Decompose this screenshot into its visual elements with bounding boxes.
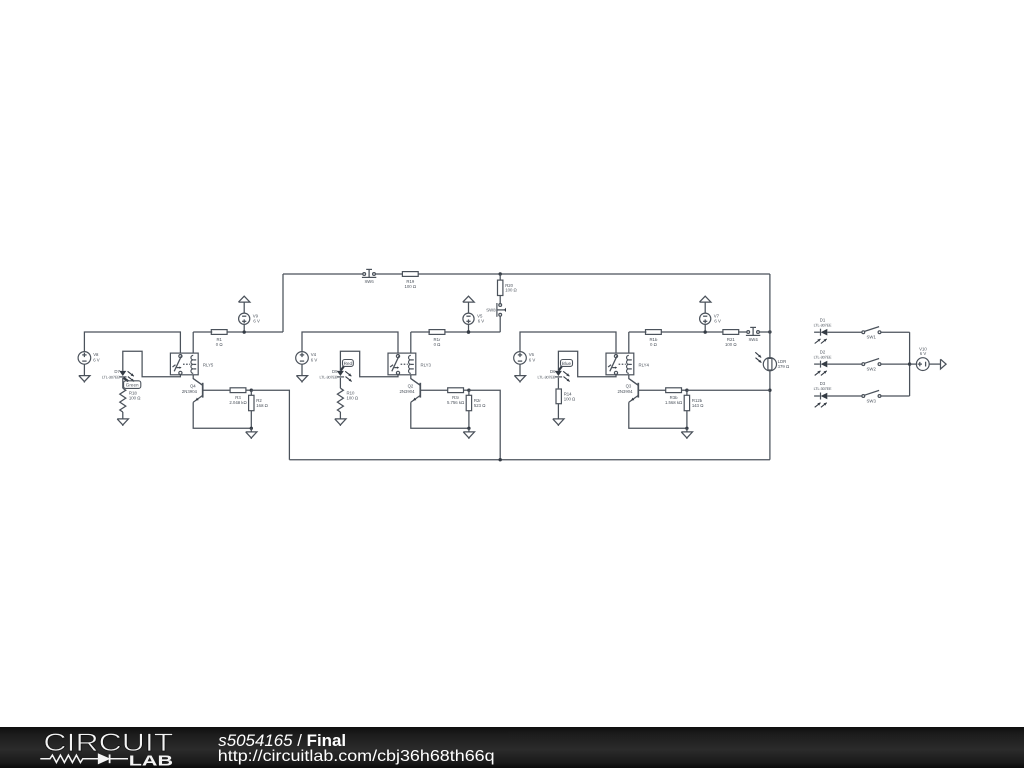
node junction xyxy=(467,389,470,392)
svg-text:D6: D6 xyxy=(550,369,556,374)
logo resistor-diode icon xyxy=(40,754,128,763)
svg-text:6 V: 6 V xyxy=(920,351,927,356)
wire SW2 to V10 column xyxy=(881,363,910,365)
svg-text:168 Ω: 168 Ω xyxy=(256,403,268,408)
svg-text:RLY3: RLY3 xyxy=(421,363,432,368)
wire R19 to LDR column xyxy=(418,273,770,275)
resistor R3b xyxy=(665,388,683,405)
resistor R14 xyxy=(556,389,576,404)
voltage source V8 xyxy=(78,352,100,365)
LDR node junction xyxy=(768,389,771,392)
wire R1 to V9 node xyxy=(227,331,283,333)
svg-text:RLY4: RLY4 xyxy=(639,363,650,368)
wire LED to resistor xyxy=(122,378,124,388)
node junction xyxy=(685,389,688,392)
svg-text:100 Ω: 100 Ω xyxy=(725,342,737,347)
relay RLY5 xyxy=(170,353,214,375)
wire top bus to R20 xyxy=(499,274,501,280)
rail junction V5 xyxy=(467,330,470,333)
svg-text:RLY5: RLY5 xyxy=(203,363,214,368)
wire SW4 to LDR column xyxy=(759,331,770,333)
svg-text:0 Ω: 0 Ω xyxy=(434,342,442,347)
svg-text:SW8: SW8 xyxy=(486,307,496,312)
resistor R20 xyxy=(498,280,518,295)
ground xyxy=(553,419,564,426)
label Green xyxy=(123,378,140,389)
wire V6 to relay common xyxy=(520,332,616,353)
transistor Q2 xyxy=(399,379,420,403)
svg-text:Blue: Blue xyxy=(562,361,572,366)
wire relay coil to collector xyxy=(411,375,421,386)
svg-text:0 Ω: 0 Ω xyxy=(650,342,658,347)
wire SW1 to V10 column xyxy=(881,331,910,333)
emitter junction xyxy=(685,427,688,430)
svg-text:LAB: LAB xyxy=(129,752,173,768)
label Blue xyxy=(559,360,573,371)
svg-text:100 Ω: 100 Ω xyxy=(347,395,359,400)
ground xyxy=(681,428,692,439)
wire node to R2 xyxy=(468,390,470,395)
svg-text:2N3904: 2N3904 xyxy=(399,389,415,394)
wire node to R2 xyxy=(686,390,688,395)
svg-text:0 Ω: 0 Ω xyxy=(216,342,224,347)
svg-text:6 V: 6 V xyxy=(529,357,536,362)
resistor R3r xyxy=(447,388,465,405)
svg-text:2N3904: 2N3904 xyxy=(617,389,633,394)
wire stage2 node to bottom bus xyxy=(469,390,501,460)
wire coil to R1b xyxy=(628,332,630,353)
resistor R1 xyxy=(211,330,227,347)
V10 column junction xyxy=(908,362,911,365)
wire divider node xyxy=(246,389,251,391)
photoresistor LDR xyxy=(755,352,790,371)
wire SW3 to V10 column xyxy=(881,395,910,397)
wire V10 column xyxy=(909,332,911,396)
ground xyxy=(463,428,474,439)
svg-text:SW4: SW4 xyxy=(748,337,758,342)
wire D3 to SW3 xyxy=(827,395,862,397)
wire emitter to ground node xyxy=(629,402,687,428)
wire SW6 to R19 xyxy=(375,273,402,275)
svg-text:379 Ω: 379 Ω xyxy=(778,364,790,369)
svg-text:D5: D5 xyxy=(332,369,338,374)
bottom bus junction xyxy=(499,458,502,461)
wire LDR to base bus xyxy=(769,371,771,460)
svg-text:6 V: 6 V xyxy=(311,357,318,362)
resistor R18 xyxy=(120,388,141,412)
svg-text:100 Ω: 100 Ω xyxy=(505,288,517,293)
voltage source V10 xyxy=(916,346,929,370)
voltage source V4 xyxy=(296,352,318,365)
pushbutton switch SW8 xyxy=(486,303,506,317)
svg-text:6 V: 6 V xyxy=(253,319,260,324)
pushbutton switch SW4 xyxy=(746,327,760,342)
svg-text:2N3904: 2N3904 xyxy=(182,389,198,394)
voltage source V9 with power flag xyxy=(239,296,260,334)
ground xyxy=(514,364,525,382)
svg-text:D1: D1 xyxy=(820,317,826,322)
wire relay contact to LED xyxy=(558,351,616,377)
relay RLY4 xyxy=(606,353,650,375)
LED D7 Green xyxy=(102,369,134,382)
wire top bus down to LDR xyxy=(769,274,771,358)
wire D1 to SW1 xyxy=(827,331,862,333)
LED D6 Blue xyxy=(537,369,569,382)
svg-text:D3: D3 xyxy=(820,381,826,386)
wire V10 to terminal xyxy=(929,363,940,365)
wire R1r to SW8 branch xyxy=(445,331,500,333)
photo LED D1 xyxy=(814,317,832,343)
pushbutton switch SW6 xyxy=(362,269,376,284)
resistor R2 xyxy=(249,395,269,410)
wire LED to resistor xyxy=(557,378,559,388)
wire coil to R1 xyxy=(192,332,194,353)
svg-text:6 V: 6 V xyxy=(93,357,100,362)
voltage source V5 with power flag xyxy=(463,296,484,334)
terminal flag xyxy=(941,359,947,369)
wire relay contact to LED xyxy=(123,351,181,377)
emitter junction xyxy=(250,427,253,430)
switch SW1 xyxy=(862,327,881,340)
svg-text:5.756 kΩ: 5.756 kΩ xyxy=(447,400,465,405)
wire resistor to ground xyxy=(339,412,341,419)
ground xyxy=(296,364,307,382)
wire divider node xyxy=(464,389,469,391)
svg-text:SW6: SW6 xyxy=(364,279,374,284)
emitter junction xyxy=(467,427,470,430)
svg-text:http://circuitlab.com/cbj36h68: http://circuitlab.com/cbj36h68th66q xyxy=(218,748,495,765)
wire relay coil to collector xyxy=(193,375,203,386)
svg-text:LTL-307EE: LTL-307EE xyxy=(537,375,555,379)
svg-text:LTL-307EE: LTL-307EE xyxy=(102,375,120,379)
wire relay coil to collector xyxy=(629,375,639,386)
svg-text:1.568 kΩ: 1.568 kΩ xyxy=(665,400,683,405)
switch SW3 xyxy=(862,390,881,403)
photo LED D2 xyxy=(814,349,832,375)
resistor R10 xyxy=(337,388,358,412)
wire R2 to ground xyxy=(250,411,252,429)
svg-text:6 V: 6 V xyxy=(714,319,721,324)
wire base to R-divider xyxy=(638,389,665,391)
voltage source V6 xyxy=(514,352,536,365)
wire bottom bus xyxy=(289,459,770,461)
svg-text:100 Ω: 100 Ω xyxy=(564,396,576,401)
wire SW8 to stage-2 rail xyxy=(499,316,501,332)
svg-text:SW1: SW1 xyxy=(867,335,877,340)
wire base to R-divider xyxy=(203,389,230,391)
wire stage3 node to LDR column xyxy=(687,389,770,391)
resistor R3 xyxy=(229,388,247,405)
svg-text:100 Ω: 100 Ω xyxy=(405,284,417,289)
ground xyxy=(79,364,90,382)
wire stub D3 xyxy=(814,395,820,397)
resistor R12b xyxy=(684,395,704,410)
wire relay contact to LED xyxy=(340,351,398,377)
top bus junction xyxy=(499,272,502,275)
wire coil to R1r xyxy=(410,332,412,353)
transistor Q4 xyxy=(182,379,203,403)
LED D5 Red xyxy=(319,369,351,382)
wire stub D1 xyxy=(814,331,820,333)
svg-text:SW3: SW3 xyxy=(867,398,877,403)
svg-text:Red: Red xyxy=(344,361,353,366)
resistor R21 xyxy=(723,330,739,347)
wire stub D2 xyxy=(814,363,820,365)
svg-text:Green: Green xyxy=(126,383,139,388)
resistor R1r xyxy=(429,330,445,347)
svg-text:LTL-307EE: LTL-307EE xyxy=(814,387,832,391)
relay RLY3 xyxy=(388,353,432,375)
wire R2 to ground xyxy=(686,411,688,429)
wire V8 to relay common xyxy=(84,332,180,353)
svg-text:D2: D2 xyxy=(820,349,826,354)
wire top bus xyxy=(283,273,363,275)
svg-text:2.048 kΩ: 2.048 kΩ xyxy=(229,400,247,405)
svg-text:100 Ω: 100 Ω xyxy=(129,395,141,400)
photo LED D3 xyxy=(814,381,832,407)
wire D2 to SW2 xyxy=(827,363,862,365)
transistor Q3 xyxy=(617,379,638,403)
svg-text:LTL-307EE: LTL-307EE xyxy=(319,375,337,379)
rail junction LDR column xyxy=(768,330,771,333)
wire stage1 node to bottom bus xyxy=(251,390,289,460)
svg-text:LTL-307EE: LTL-307EE xyxy=(814,355,832,359)
footer bar xyxy=(0,727,1024,768)
wire emitter to ground node xyxy=(411,402,469,428)
wire V4 to relay common xyxy=(302,332,398,353)
wire R21 to SW4 xyxy=(739,331,747,333)
svg-text:LTL-307EE: LTL-307EE xyxy=(814,323,832,327)
ground xyxy=(335,419,346,426)
svg-text:143 Ω: 143 Ω xyxy=(692,403,704,408)
wire V9 node to top bus xyxy=(282,274,284,332)
ground xyxy=(246,428,257,439)
wire base to R-divider xyxy=(420,389,447,391)
wire emitter to ground node xyxy=(193,402,251,428)
wire divider node xyxy=(682,389,687,391)
resistor R19 xyxy=(402,272,418,289)
wire resistor to ground xyxy=(122,412,124,419)
node junction xyxy=(250,389,253,392)
switch SW2 xyxy=(862,359,881,372)
wire R2 to ground xyxy=(468,411,470,429)
svg-text:6 V: 6 V xyxy=(478,319,485,324)
svg-text:SW2: SW2 xyxy=(867,366,877,371)
wire LED to resistor xyxy=(339,378,341,388)
wire R1b to V7 node xyxy=(661,331,723,333)
wire R20 to SW8 xyxy=(499,296,501,304)
wire node to R2 xyxy=(250,390,252,395)
resistor R2r xyxy=(466,395,486,410)
label Red xyxy=(341,360,354,371)
ground xyxy=(117,419,128,426)
resistor R1b xyxy=(646,330,662,347)
wire resistor to ground xyxy=(557,404,559,419)
voltage source V7 with power flag xyxy=(700,296,721,334)
svg-text:523 Ω: 523 Ω xyxy=(474,403,486,408)
wire junction to V10 xyxy=(910,363,917,365)
svg-text:D7: D7 xyxy=(114,369,120,374)
